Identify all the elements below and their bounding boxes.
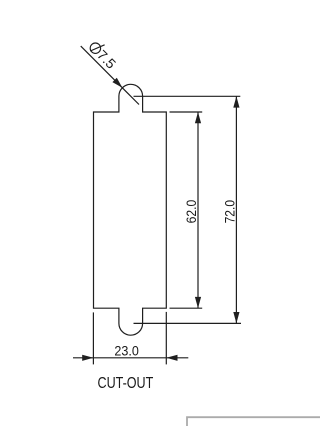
- arrowhead 23.0 left: [82, 355, 93, 361]
- extension line right (23.0): [165, 312, 167, 365]
- arrowhead 62.0 down: [195, 297, 201, 308]
- arrowhead 62.0 up: [195, 112, 201, 123]
- extension line bottom (62.0): [170, 307, 203, 309]
- extension line top (72.0): [134, 95, 241, 97]
- extension line top (62.0): [170, 111, 203, 113]
- leader line Ø7.5: [81, 46, 139, 104]
- svg-text:62.0: 62.0: [184, 199, 199, 223]
- cut-out outline: [94, 84, 167, 335]
- dimension line 62.0: [197, 112, 199, 308]
- label Ø7.5 diameter symbol: [90, 43, 104, 53]
- dimension line 72.0: [235, 96, 237, 323]
- svg-text:23.0: 23.0: [114, 344, 139, 359]
- arrowhead 72.0 up: [233, 96, 239, 107]
- arrowhead leader: [112, 78, 122, 88]
- dimension line 23.0: [73, 357, 188, 359]
- svg-text:7.5: 7.5: [94, 47, 119, 72]
- svg-text:CUT-OUT: CUT-OUT: [98, 375, 154, 392]
- arrowhead 72.0 down: [233, 312, 239, 323]
- arrowhead 23.0 right: [166, 355, 177, 361]
- extension line left (23.0): [92, 312, 94, 364]
- extension line bottom (72.0): [134, 322, 242, 324]
- title block corner (gray): [187, 417, 320, 426]
- svg-text:72.0: 72.0: [222, 200, 237, 224]
